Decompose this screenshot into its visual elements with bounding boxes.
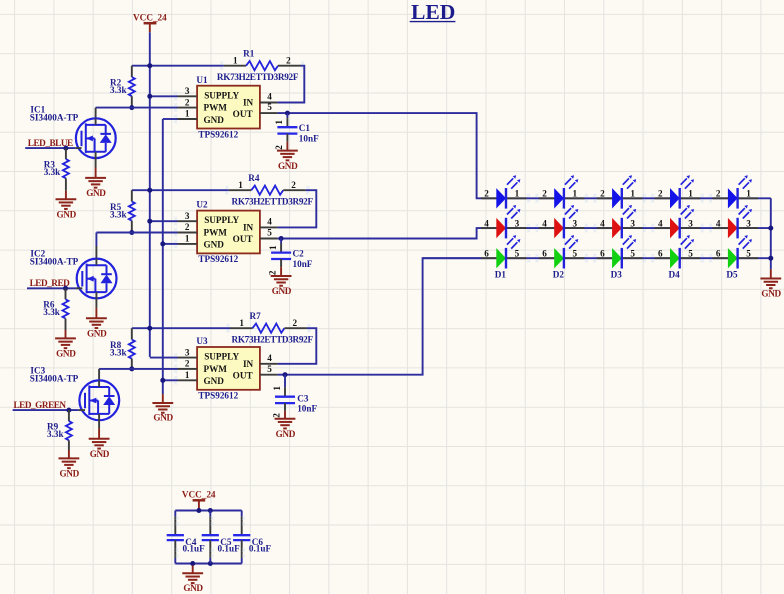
svg-text:TPS92612: TPS92612 xyxy=(198,254,238,264)
svg-text:SI3400A-TP: SI3400A-TP xyxy=(30,374,79,384)
ground GND (IC2 source) xyxy=(95,298,97,308)
wire SUPPLY pin 3 xyxy=(150,357,178,359)
resistor R6 3.3k xyxy=(65,288,67,299)
ground GND (C3) xyxy=(284,411,286,419)
wire LED row nets (horizontal) xyxy=(481,197,771,199)
LED D2 green (pins 6/5) xyxy=(539,257,554,259)
junction xyxy=(208,508,213,513)
svg-text:GND: GND xyxy=(278,161,298,171)
junction xyxy=(147,188,152,193)
junction xyxy=(129,230,134,235)
svg-text:0.1uF: 0.1uF xyxy=(183,543,206,553)
svg-text:1: 1 xyxy=(238,180,243,190)
wire SUPPLY pin 3 xyxy=(150,220,178,222)
svg-text:2: 2 xyxy=(291,180,296,190)
junction xyxy=(63,146,68,151)
svg-text:PWM: PWM xyxy=(204,227,228,237)
svg-text:GND: GND xyxy=(276,429,296,439)
junction xyxy=(147,219,152,224)
svg-text:1: 1 xyxy=(515,189,520,199)
junction xyxy=(285,111,290,116)
ground GND (decoupling) xyxy=(192,566,194,574)
junction xyxy=(147,94,152,99)
wire R1 row (VCC to series resistor) xyxy=(132,65,224,67)
ground GND (net rail) xyxy=(162,394,164,403)
junction xyxy=(283,372,288,377)
svg-text:U1: U1 xyxy=(196,75,208,85)
LED D5 blue (pins 2/1) xyxy=(713,197,728,199)
svg-text:5: 5 xyxy=(688,249,693,259)
transistor IC1 SI3400A-TP xyxy=(76,118,116,158)
svg-text:GND: GND xyxy=(761,288,781,298)
wire LED_BLUE to gate xyxy=(25,147,75,149)
junction xyxy=(160,378,165,383)
svg-text:OUT: OUT xyxy=(233,370,253,380)
wire decoupling top rail xyxy=(175,510,241,512)
svg-text:10nF: 10nF xyxy=(297,404,317,414)
svg-text:1: 1 xyxy=(185,370,190,380)
svg-text:1: 1 xyxy=(268,245,278,250)
svg-text:4: 4 xyxy=(658,219,663,229)
IC U1 TPS92612 xyxy=(197,86,260,129)
svg-text:4: 4 xyxy=(267,92,272,102)
wire VCC_24 vertical rail xyxy=(149,32,151,357)
svg-text:VCC_24: VCC_24 xyxy=(182,489,216,499)
capacitor C6 0.1uF xyxy=(241,511,243,517)
wire LED_RED to gate xyxy=(27,287,76,289)
svg-text:GND: GND xyxy=(60,469,80,479)
junction xyxy=(160,241,165,246)
LED D4 blue (pins 2/1) xyxy=(655,197,670,199)
transistor IC2 SI3400A-TP xyxy=(77,259,117,299)
svg-text:2: 2 xyxy=(274,145,284,150)
svg-text:6: 6 xyxy=(658,249,663,259)
svg-text:4: 4 xyxy=(267,217,272,227)
LED D1 green (pins 6/5) xyxy=(481,257,496,259)
junction xyxy=(196,508,201,513)
svg-text:D5: D5 xyxy=(726,269,738,279)
svg-text:GND: GND xyxy=(86,188,106,198)
capacitor C4 0.1uF xyxy=(174,511,176,517)
svg-text:D3: D3 xyxy=(611,269,623,279)
svg-text:2: 2 xyxy=(268,270,278,275)
svg-text:C1: C1 xyxy=(299,123,311,133)
svg-text:2: 2 xyxy=(272,413,282,418)
svg-text:3: 3 xyxy=(185,211,190,221)
resistor R5 3.3k xyxy=(131,190,133,201)
svg-text:2: 2 xyxy=(542,189,547,199)
svg-text:D1: D1 xyxy=(495,269,507,279)
svg-text:3: 3 xyxy=(185,347,190,357)
wire resistor to IN pin xyxy=(278,66,305,103)
svg-text:1: 1 xyxy=(746,189,751,199)
LED D5 red (pins 4/3) xyxy=(713,227,728,229)
junction xyxy=(147,63,152,68)
svg-text:GND: GND xyxy=(204,376,225,386)
svg-text:TPS92612: TPS92612 xyxy=(198,129,238,139)
LED D3 red (pins 4/3) xyxy=(597,227,612,229)
junction xyxy=(768,226,773,231)
capacitor C3 10nF xyxy=(284,375,286,388)
ground GND (C1) xyxy=(286,142,288,151)
svg-text:2: 2 xyxy=(286,56,291,66)
svg-text:3: 3 xyxy=(746,219,751,229)
svg-text:U3: U3 xyxy=(196,336,208,346)
svg-text:5: 5 xyxy=(267,364,272,374)
svg-text:GND: GND xyxy=(153,413,173,423)
svg-text:PWM: PWM xyxy=(204,364,228,374)
LED D2 red (pins 4/3) xyxy=(539,227,554,229)
svg-text:2: 2 xyxy=(658,189,663,199)
svg-text:GND: GND xyxy=(183,583,203,593)
svg-text:PWM: PWM xyxy=(204,103,228,113)
svg-text:6: 6 xyxy=(542,249,547,259)
wire resistor to IN pin xyxy=(278,190,317,227)
svg-text:4: 4 xyxy=(542,219,547,229)
capacitor C2 10nF xyxy=(280,239,282,244)
svg-text:2: 2 xyxy=(185,222,190,232)
svg-text:3: 3 xyxy=(688,219,693,229)
svg-text:1: 1 xyxy=(272,386,282,391)
svg-text:GND: GND xyxy=(90,449,110,459)
ground GND (LED matrix) xyxy=(770,269,772,278)
junction xyxy=(63,286,68,291)
svg-text:OUT: OUT xyxy=(233,109,253,119)
svg-text:GND: GND xyxy=(204,115,225,125)
junction xyxy=(190,561,195,566)
svg-text:D4: D4 xyxy=(669,269,681,279)
svg-text:10nF: 10nF xyxy=(293,259,313,269)
svg-text:4: 4 xyxy=(716,219,721,229)
resistor R1 RK73H2ETTD3R92F xyxy=(224,65,247,67)
wire GND pin 1 xyxy=(163,379,178,381)
wire GND pin 1 xyxy=(163,118,178,120)
svg-text:5: 5 xyxy=(746,249,751,259)
svg-text:4: 4 xyxy=(600,219,605,229)
svg-text:GND: GND xyxy=(56,349,76,359)
svg-text:1: 1 xyxy=(185,234,190,244)
wire resistor to IN pin xyxy=(278,328,317,364)
svg-text:IN: IN xyxy=(243,98,254,108)
svg-text:GND: GND xyxy=(57,209,77,219)
svg-text:RK73H2ETTD3R92F: RK73H2ETTD3R92F xyxy=(232,334,314,344)
svg-text:6: 6 xyxy=(600,249,605,259)
IC U2 TPS92612 xyxy=(197,211,260,254)
svg-text:3.3k: 3.3k xyxy=(43,307,60,317)
svg-text:1: 1 xyxy=(274,120,284,125)
LED D3 green (pins 6/5) xyxy=(597,257,612,259)
wire OUT pin 5 xyxy=(278,258,482,375)
LED D1 red (pins 4/3) xyxy=(481,227,496,229)
transistor IC3 SI3400A-TP xyxy=(79,380,119,420)
resistor R9 3.3k xyxy=(68,410,70,421)
svg-text:5: 5 xyxy=(515,249,520,259)
svg-text:GND: GND xyxy=(87,329,107,339)
wire PWM pin 2 to MOSFET drain xyxy=(99,368,177,370)
LED D3 blue (pins 2/1) xyxy=(597,197,612,199)
svg-text:1: 1 xyxy=(185,109,190,119)
svg-text:0.1uF: 0.1uF xyxy=(249,543,272,553)
svg-text:2: 2 xyxy=(185,97,190,107)
svg-text:LED_GREEN: LED_GREEN xyxy=(14,400,67,410)
wire PWM pin 2 to MOSFET drain xyxy=(96,232,177,234)
svg-text:LED: LED xyxy=(411,0,455,24)
junction xyxy=(279,236,284,241)
svg-text:5: 5 xyxy=(267,102,272,112)
svg-text:4: 4 xyxy=(484,219,489,229)
junction xyxy=(66,408,71,413)
svg-text:IN: IN xyxy=(243,359,254,369)
svg-text:1: 1 xyxy=(239,318,244,328)
junction xyxy=(768,256,773,261)
svg-text:C2: C2 xyxy=(293,248,305,258)
ground GND (IC3 source) xyxy=(98,420,100,428)
wire decoupling bottom rail xyxy=(175,563,241,565)
svg-text:3: 3 xyxy=(573,219,578,229)
resistor R2 3.3k xyxy=(131,66,133,77)
LED D5 green (pins 6/5) xyxy=(713,257,728,259)
svg-text:R4: R4 xyxy=(248,173,260,183)
svg-text:10nF: 10nF xyxy=(299,134,319,144)
svg-text:GND: GND xyxy=(204,240,225,250)
capacitor C1 10nF xyxy=(286,113,288,118)
svg-text:4: 4 xyxy=(267,353,272,363)
svg-text:SUPPLY: SUPPLY xyxy=(204,352,239,362)
svg-text:3: 3 xyxy=(630,219,635,229)
wire GND net vertical rail xyxy=(162,119,164,394)
capacitor C5 0.1uF xyxy=(209,511,211,517)
svg-text:3.3k: 3.3k xyxy=(110,85,127,95)
svg-text:3.3k: 3.3k xyxy=(110,348,127,358)
wire SUPPLY pin 3 xyxy=(150,95,178,97)
LED D4 green (pins 6/5) xyxy=(655,257,670,259)
junction xyxy=(129,366,134,371)
svg-text:C3: C3 xyxy=(297,393,309,403)
svg-text:GND: GND xyxy=(272,286,292,296)
ground GND (R6) xyxy=(65,330,67,338)
wire PWM pin 2 to MOSFET drain xyxy=(96,107,178,109)
wire OUT pin 5 xyxy=(278,228,482,238)
svg-text:IN: IN xyxy=(243,222,254,232)
svg-text:SI3400A-TP: SI3400A-TP xyxy=(30,113,79,123)
svg-text:SUPPLY: SUPPLY xyxy=(204,90,239,100)
svg-text:2: 2 xyxy=(716,189,721,199)
ground GND (R3) xyxy=(65,191,67,199)
IC U3 TPS92612 xyxy=(197,347,260,390)
wire R4 row (VCC to series resistor) xyxy=(132,189,229,191)
LED D2 blue (pins 2/1) xyxy=(539,197,554,199)
svg-text:0.1uF: 0.1uF xyxy=(218,543,241,553)
wire GND pin 1 xyxy=(163,243,178,245)
svg-text:3: 3 xyxy=(515,219,520,229)
svg-text:SUPPLY: SUPPLY xyxy=(204,215,239,225)
svg-text:2: 2 xyxy=(600,189,605,199)
resistor R4 RK73H2ETTD3R92F xyxy=(229,189,252,191)
svg-text:R7: R7 xyxy=(250,311,262,321)
ground GND (R9) xyxy=(68,450,70,458)
svg-text:RK73H2ETTD3R92F: RK73H2ETTD3R92F xyxy=(217,72,299,82)
resistor R3 3.3k xyxy=(65,148,67,159)
ground GND (IC1 source) xyxy=(95,158,97,168)
svg-text:SI3400A-TP: SI3400A-TP xyxy=(30,257,79,267)
svg-text:3.3k: 3.3k xyxy=(110,210,127,220)
svg-text:3: 3 xyxy=(185,86,190,96)
svg-text:RK73H2ETTD3R92F: RK73H2ETTD3R92F xyxy=(232,196,314,206)
junction xyxy=(208,561,213,566)
LED D4 red (pins 4/3) xyxy=(655,227,670,229)
svg-text:5: 5 xyxy=(267,228,272,238)
svg-text:6: 6 xyxy=(484,249,489,259)
svg-text:1: 1 xyxy=(688,189,693,199)
junction xyxy=(129,105,134,110)
svg-text:1: 1 xyxy=(233,56,238,66)
wire R7 row (VCC to series resistor) xyxy=(132,327,230,329)
svg-text:3.3k: 3.3k xyxy=(44,167,61,177)
svg-text:6: 6 xyxy=(716,249,721,259)
resistor R8 3.3k xyxy=(131,328,133,339)
svg-text:D2: D2 xyxy=(553,269,565,279)
wire LED_GREEN to gate xyxy=(13,409,79,411)
svg-text:OUT: OUT xyxy=(233,234,253,244)
svg-text:2: 2 xyxy=(293,318,298,328)
svg-text:2: 2 xyxy=(185,359,190,369)
resistor R7 RK73H2ETTD3R92F xyxy=(230,327,253,329)
svg-text:U2: U2 xyxy=(196,200,208,210)
svg-text:5: 5 xyxy=(573,249,578,259)
svg-text:R1: R1 xyxy=(243,49,255,59)
svg-text:1: 1 xyxy=(573,189,578,199)
svg-text:2: 2 xyxy=(484,189,489,199)
svg-text:VCC_24: VCC_24 xyxy=(133,12,167,22)
svg-text:5: 5 xyxy=(630,249,635,259)
svg-text:TPS92612: TPS92612 xyxy=(198,391,238,401)
LED D1 blue (pins 2/1) xyxy=(481,197,496,199)
ground GND (C2) xyxy=(280,267,282,276)
svg-text:1: 1 xyxy=(630,189,635,199)
wire OUT pin 5 xyxy=(278,113,482,198)
junction xyxy=(147,326,152,331)
svg-text:3.3k: 3.3k xyxy=(47,429,64,439)
wire LED matrix right side to GND xyxy=(770,198,772,269)
